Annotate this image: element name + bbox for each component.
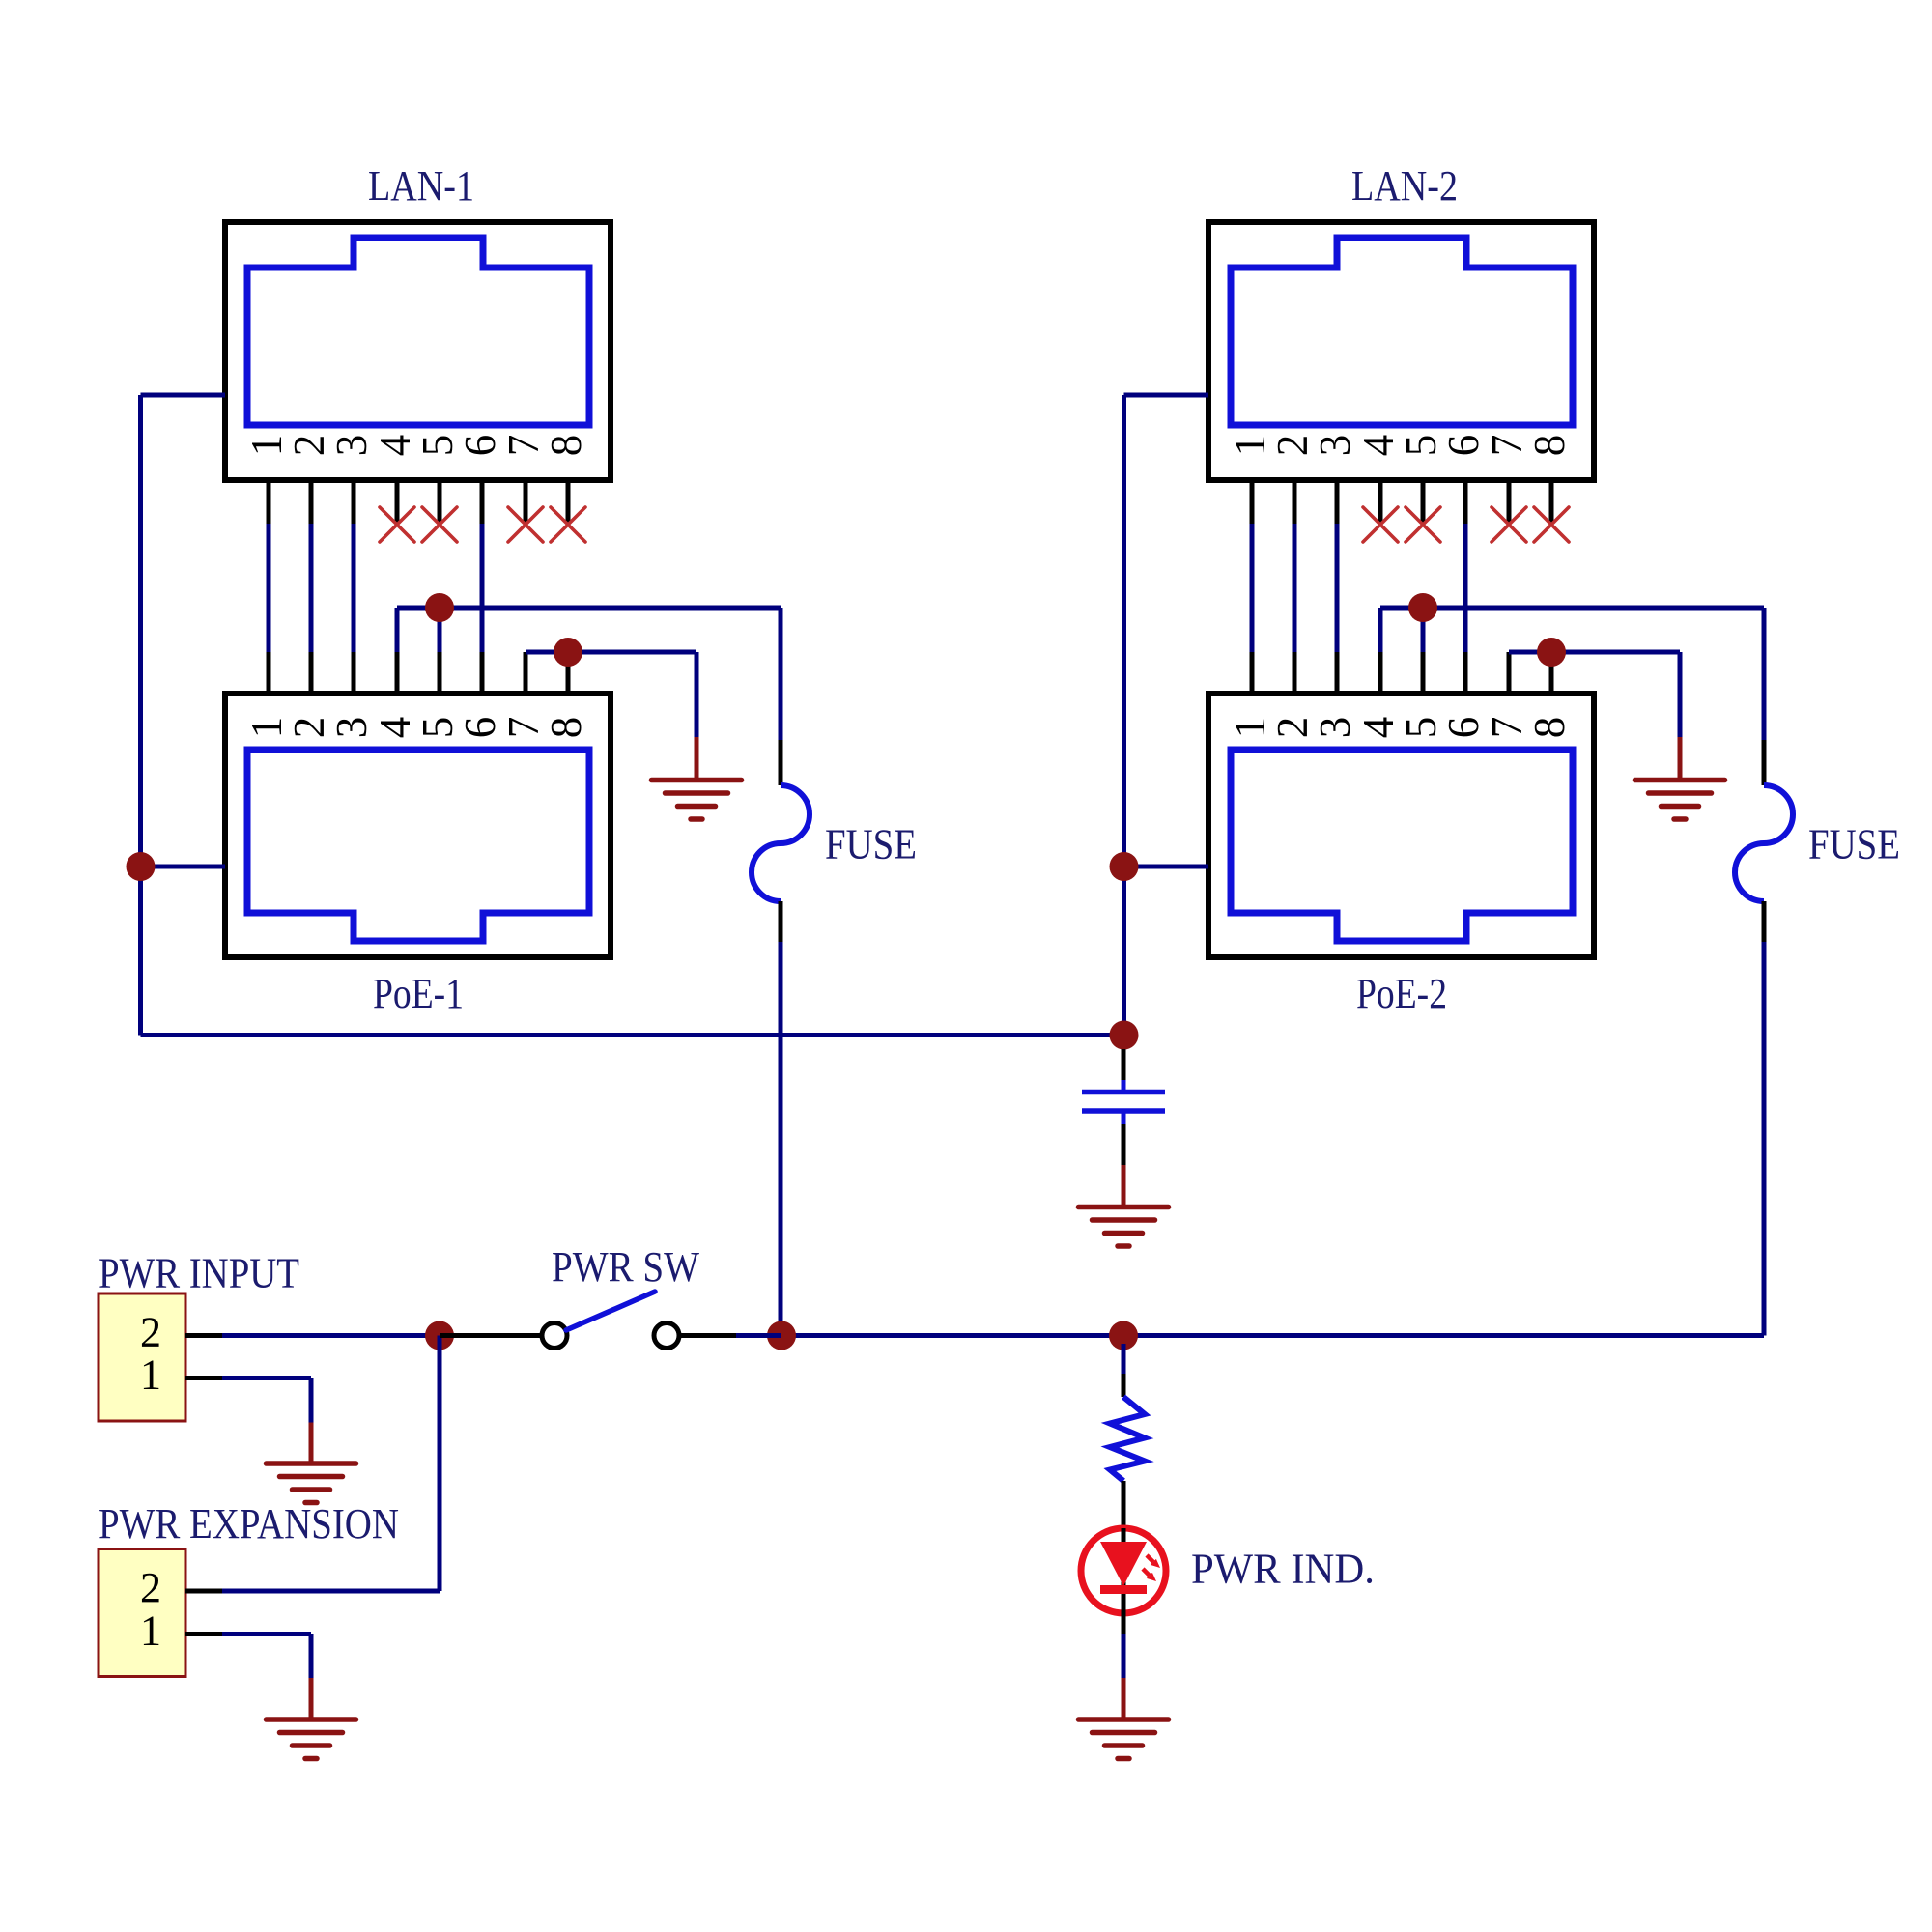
label PoE-1 — [373, 970, 464, 1017]
PoE-1 pin 8 — [542, 652, 590, 738]
PoE-2 pin 2 — [1268, 652, 1317, 738]
LAN-1 pin 5 — [413, 435, 462, 524]
no-connect X on LAN-2 pin 4 — [1363, 507, 1398, 542]
switch PWR SW lever — [566, 1292, 655, 1330]
svg-text:5: 5 — [1397, 717, 1445, 739]
LAN-2 pin 3 — [1311, 435, 1359, 524]
junction PoE-1 body tap — [127, 852, 156, 881]
wire switch to fuse junction — [679, 1333, 781, 1338]
label LAN-1 — [368, 162, 474, 210]
wire LAN-2 pin 6 to PoE-2 pin 6 — [1463, 524, 1468, 652]
junction PoE-1 pin 8 — [554, 638, 582, 667]
LAN-2 pin 8 — [1525, 435, 1574, 524]
LAN-1 pin 6 — [456, 435, 504, 524]
svg-text:1: 1 — [242, 435, 291, 457]
svg-text:3: 3 — [1311, 435, 1359, 457]
LAN-2 pin 1 — [1226, 435, 1274, 524]
wire junction to switch — [440, 1333, 542, 1338]
wire branch to PoE-1 body — [141, 865, 226, 869]
wire through LED — [1122, 1528, 1126, 1634]
wire LAN-1 pin 6 to PoE-1 pin 6 — [480, 524, 485, 652]
wire resistor to LED — [1122, 1481, 1126, 1528]
svg-text:2: 2 — [1268, 435, 1317, 457]
PoE-2 pin 1 — [1226, 652, 1274, 738]
junction PoE-2 body tap — [1110, 852, 1139, 881]
junction PoE-2 pin 5 — [1408, 593, 1437, 622]
wire LAN-1 pin 2 to PoE-1 pin 2 — [309, 524, 314, 652]
PoE-1 pin 7 — [499, 652, 548, 738]
svg-text:7: 7 — [499, 717, 548, 739]
LAN-2 pin 7 — [1483, 435, 1531, 524]
LED PWR IND triangle — [1100, 1542, 1147, 1586]
PWR INPUT pin 2 — [140, 1309, 222, 1356]
svg-text:6: 6 — [456, 435, 504, 457]
wire LAN-2 pin 1 to PoE-2 pin 1 — [1250, 524, 1255, 652]
ground capacitor — [1079, 1207, 1169, 1247]
PoE-2 pin 8 — [1525, 652, 1574, 738]
wire PoE-2 pins 4-5 power bus — [1380, 608, 1764, 652]
wire LED to ground — [1122, 1634, 1126, 1719]
PoE-2 pin 4 — [1354, 652, 1403, 738]
ground PoE-1 — [652, 781, 742, 820]
wire PoE-1 pins 7-8 to ground — [526, 652, 696, 780]
svg-text:FUSE: FUSE — [1808, 821, 1900, 868]
PoE-1 pin 6 — [456, 652, 504, 738]
svg-text:PWR IND.: PWR IND. — [1191, 1546, 1375, 1593]
wire FUSE-2 to rail — [1762, 942, 1767, 1336]
power rail wire — [781, 1333, 1764, 1338]
LAN-2 pin 6 — [1439, 435, 1488, 524]
svg-text:4: 4 — [1354, 717, 1403, 739]
no-connect X on LAN-1 pin 5 — [422, 507, 457, 542]
ground PoE-2 — [1635, 781, 1725, 820]
svg-text:1: 1 — [1226, 435, 1274, 457]
ground PWR INPUT — [267, 1463, 356, 1503]
PoE-1 pin 3 — [327, 652, 376, 738]
svg-text:6: 6 — [456, 717, 504, 739]
svg-text:8: 8 — [542, 717, 590, 739]
svg-text:2: 2 — [285, 435, 333, 457]
wire PWR INPUT pin2 to junction — [222, 1333, 440, 1338]
LAN-1 jack outline — [247, 238, 589, 425]
svg-text:PoE-1: PoE-1 — [373, 970, 464, 1017]
wire LAN-1 pin 3 to PoE-1 pin 3 — [352, 524, 356, 652]
switch PWR SW pole B — [654, 1323, 679, 1349]
wire FUSE-1 to rail — [779, 942, 783, 1336]
switch PWR SW pole A — [542, 1323, 567, 1349]
wire capacitor bottom lead — [1122, 1113, 1126, 1207]
no-connect X on LAN-1 pin 8 — [551, 507, 585, 542]
wire LAN-2 pin 3 to PoE-2 pin 3 — [1335, 524, 1340, 652]
junction PoE-1 pin 5 — [425, 593, 454, 622]
svg-text:4: 4 — [1354, 435, 1403, 457]
wire LAN-2 pin 2 to PoE-2 pin 2 — [1293, 524, 1297, 652]
wire fuse top (PoE-2) — [1762, 608, 1767, 785]
junction LED branch — [1109, 1321, 1138, 1350]
wire PoE-1 pins 4-5 power bus — [397, 608, 781, 652]
LED PWR IND cathode bar — [1100, 1585, 1147, 1594]
ground PWR IND — [1079, 1719, 1169, 1759]
LAN-1 pin 4 — [371, 435, 419, 524]
PoE-1 pin 1 — [242, 652, 291, 738]
wire PoE-2 pins 7-8 to ground — [1509, 652, 1680, 780]
no-connect X on LAN-2 pin 8 — [1534, 507, 1569, 542]
LAN-1 pin 7 — [499, 435, 548, 524]
wire bus to capacitor junction — [141, 1033, 1124, 1037]
LAN-1 pin 1 — [242, 435, 291, 524]
PoE-1 pin 4 — [371, 652, 419, 738]
svg-text:7: 7 — [499, 435, 548, 457]
label LAN-2 — [1351, 162, 1458, 210]
svg-text:8: 8 — [542, 435, 590, 457]
junction PWR input node — [425, 1321, 454, 1350]
svg-text:4: 4 — [371, 435, 419, 457]
PoE-1 pin 5 — [413, 652, 462, 738]
svg-text:3: 3 — [1311, 717, 1359, 739]
svg-text:PoE-2: PoE-2 — [1356, 970, 1447, 1017]
svg-text:FUSE: FUSE — [825, 821, 917, 868]
svg-text:2: 2 — [285, 717, 333, 739]
wire PWR INPUT pin1 to ground — [222, 1378, 311, 1464]
label PWR SW — [552, 1243, 699, 1291]
PWR EXPANSION pin 2 — [140, 1564, 222, 1611]
svg-text:1: 1 — [140, 1607, 161, 1655]
PoE-2 pin 6 — [1439, 652, 1488, 738]
wire LAN-1 pin 1 to PoE-1 pin 1 — [267, 524, 271, 652]
no-connect X on LAN-2 pin 5 — [1406, 507, 1440, 542]
label PoE-2 — [1356, 970, 1447, 1017]
PWR INPUT pin 1 — [140, 1351, 222, 1399]
junction fuse-1 rail — [767, 1321, 796, 1350]
PoE-1 pin 2 — [285, 652, 333, 738]
LAN-2 jack outline — [1231, 238, 1573, 425]
PoE-2 jack outline — [1231, 750, 1573, 941]
svg-text:6: 6 — [1439, 435, 1488, 457]
svg-text:1: 1 — [242, 717, 291, 739]
label PWR INPUT — [99, 1250, 299, 1297]
LAN-1 pin 8 — [542, 435, 590, 524]
svg-text:LAN-1: LAN-1 — [368, 162, 474, 210]
fuse FUSE-2 — [1735, 785, 1793, 901]
no-connect X on LAN-1 pin 4 — [380, 507, 414, 542]
no-connect X on LAN-1 pin 7 — [508, 507, 543, 542]
wire fuse bottom (PoE-1) — [779, 901, 783, 942]
junction capacitor tap — [1110, 1021, 1139, 1050]
svg-text:LAN-2: LAN-2 — [1351, 162, 1458, 210]
wire LAN-2 shield net vertical — [1124, 395, 1209, 1036]
svg-text:2: 2 — [140, 1564, 161, 1611]
LAN-2 pin 2 — [1268, 435, 1317, 524]
svg-text:2: 2 — [1268, 717, 1317, 739]
PoE-2 pin 7 — [1483, 652, 1531, 738]
label FUSE (PoE-1) — [825, 821, 917, 868]
LAN-2 pin 5 — [1397, 435, 1445, 524]
svg-text:1: 1 — [1226, 717, 1274, 739]
no-connect X on LAN-2 pin 7 — [1492, 507, 1526, 542]
svg-text:3: 3 — [327, 717, 376, 739]
wire rail to resistor — [1122, 1344, 1126, 1397]
junction PoE-2 pin 8 — [1537, 638, 1566, 667]
svg-text:6: 6 — [1439, 717, 1488, 739]
PoE-1 jack outline — [247, 750, 589, 941]
label PWR EXPANSION — [99, 1500, 399, 1548]
LED PWR IND circle — [1081, 1528, 1166, 1613]
svg-text:PWR SW: PWR SW — [552, 1243, 699, 1291]
svg-text:5: 5 — [413, 435, 462, 457]
wire LAN-1 shield net vertical — [141, 395, 226, 1036]
connector PoE-2 body — [1208, 694, 1594, 957]
wire fuse bottom (PoE-2) — [1762, 901, 1767, 942]
svg-text:8: 8 — [1525, 435, 1574, 457]
connector PWR INPUT body — [99, 1293, 185, 1421]
wire PWR EXPANSION pin2 to junction — [222, 1336, 440, 1592]
LAN-1 pin 2 — [285, 435, 333, 524]
wire branch to PoE-2 body — [1124, 865, 1209, 869]
PWR EXPANSION pin 1 — [140, 1607, 222, 1655]
label PWR IND. — [1191, 1546, 1375, 1593]
connector LAN-2 body — [1208, 222, 1594, 480]
svg-text:7: 7 — [1483, 717, 1531, 739]
LAN-1 pin 3 — [327, 435, 376, 524]
connector PWR EXPANSION body — [99, 1549, 185, 1677]
wire fuse top (PoE-1) — [779, 608, 783, 785]
svg-text:1: 1 — [140, 1351, 161, 1399]
svg-text:8: 8 — [1525, 717, 1574, 739]
label FUSE (PoE-2) — [1808, 821, 1900, 868]
wire PWR EXPANSION pin1 to ground — [222, 1634, 311, 1720]
svg-text:5: 5 — [1397, 435, 1445, 457]
LED PWR IND arrow 2 — [1143, 1569, 1156, 1581]
wire capacitor top lead — [1122, 1049, 1126, 1090]
PoE-2 pin 5 — [1397, 652, 1445, 738]
svg-text:PWR EXPANSION: PWR EXPANSION — [99, 1500, 399, 1548]
connector LAN-1 body — [225, 222, 611, 480]
svg-text:2: 2 — [140, 1309, 161, 1356]
svg-text:5: 5 — [413, 717, 462, 739]
svg-text:7: 7 — [1483, 435, 1531, 457]
LED PWR IND arrow 1 — [1147, 1555, 1160, 1568]
PoE-2 pin 3 — [1311, 652, 1359, 738]
capacitor C1 — [1082, 1093, 1165, 1112]
connector PoE-1 body — [225, 694, 611, 957]
LAN-2 pin 4 — [1354, 435, 1403, 524]
ground PWR EXPANSION — [267, 1719, 356, 1759]
svg-text:4: 4 — [371, 717, 419, 739]
fuse FUSE-1 — [752, 785, 810, 901]
svg-text:PWR INPUT: PWR INPUT — [99, 1250, 299, 1297]
resistor R1 — [1110, 1397, 1145, 1481]
svg-text:3: 3 — [327, 435, 376, 457]
